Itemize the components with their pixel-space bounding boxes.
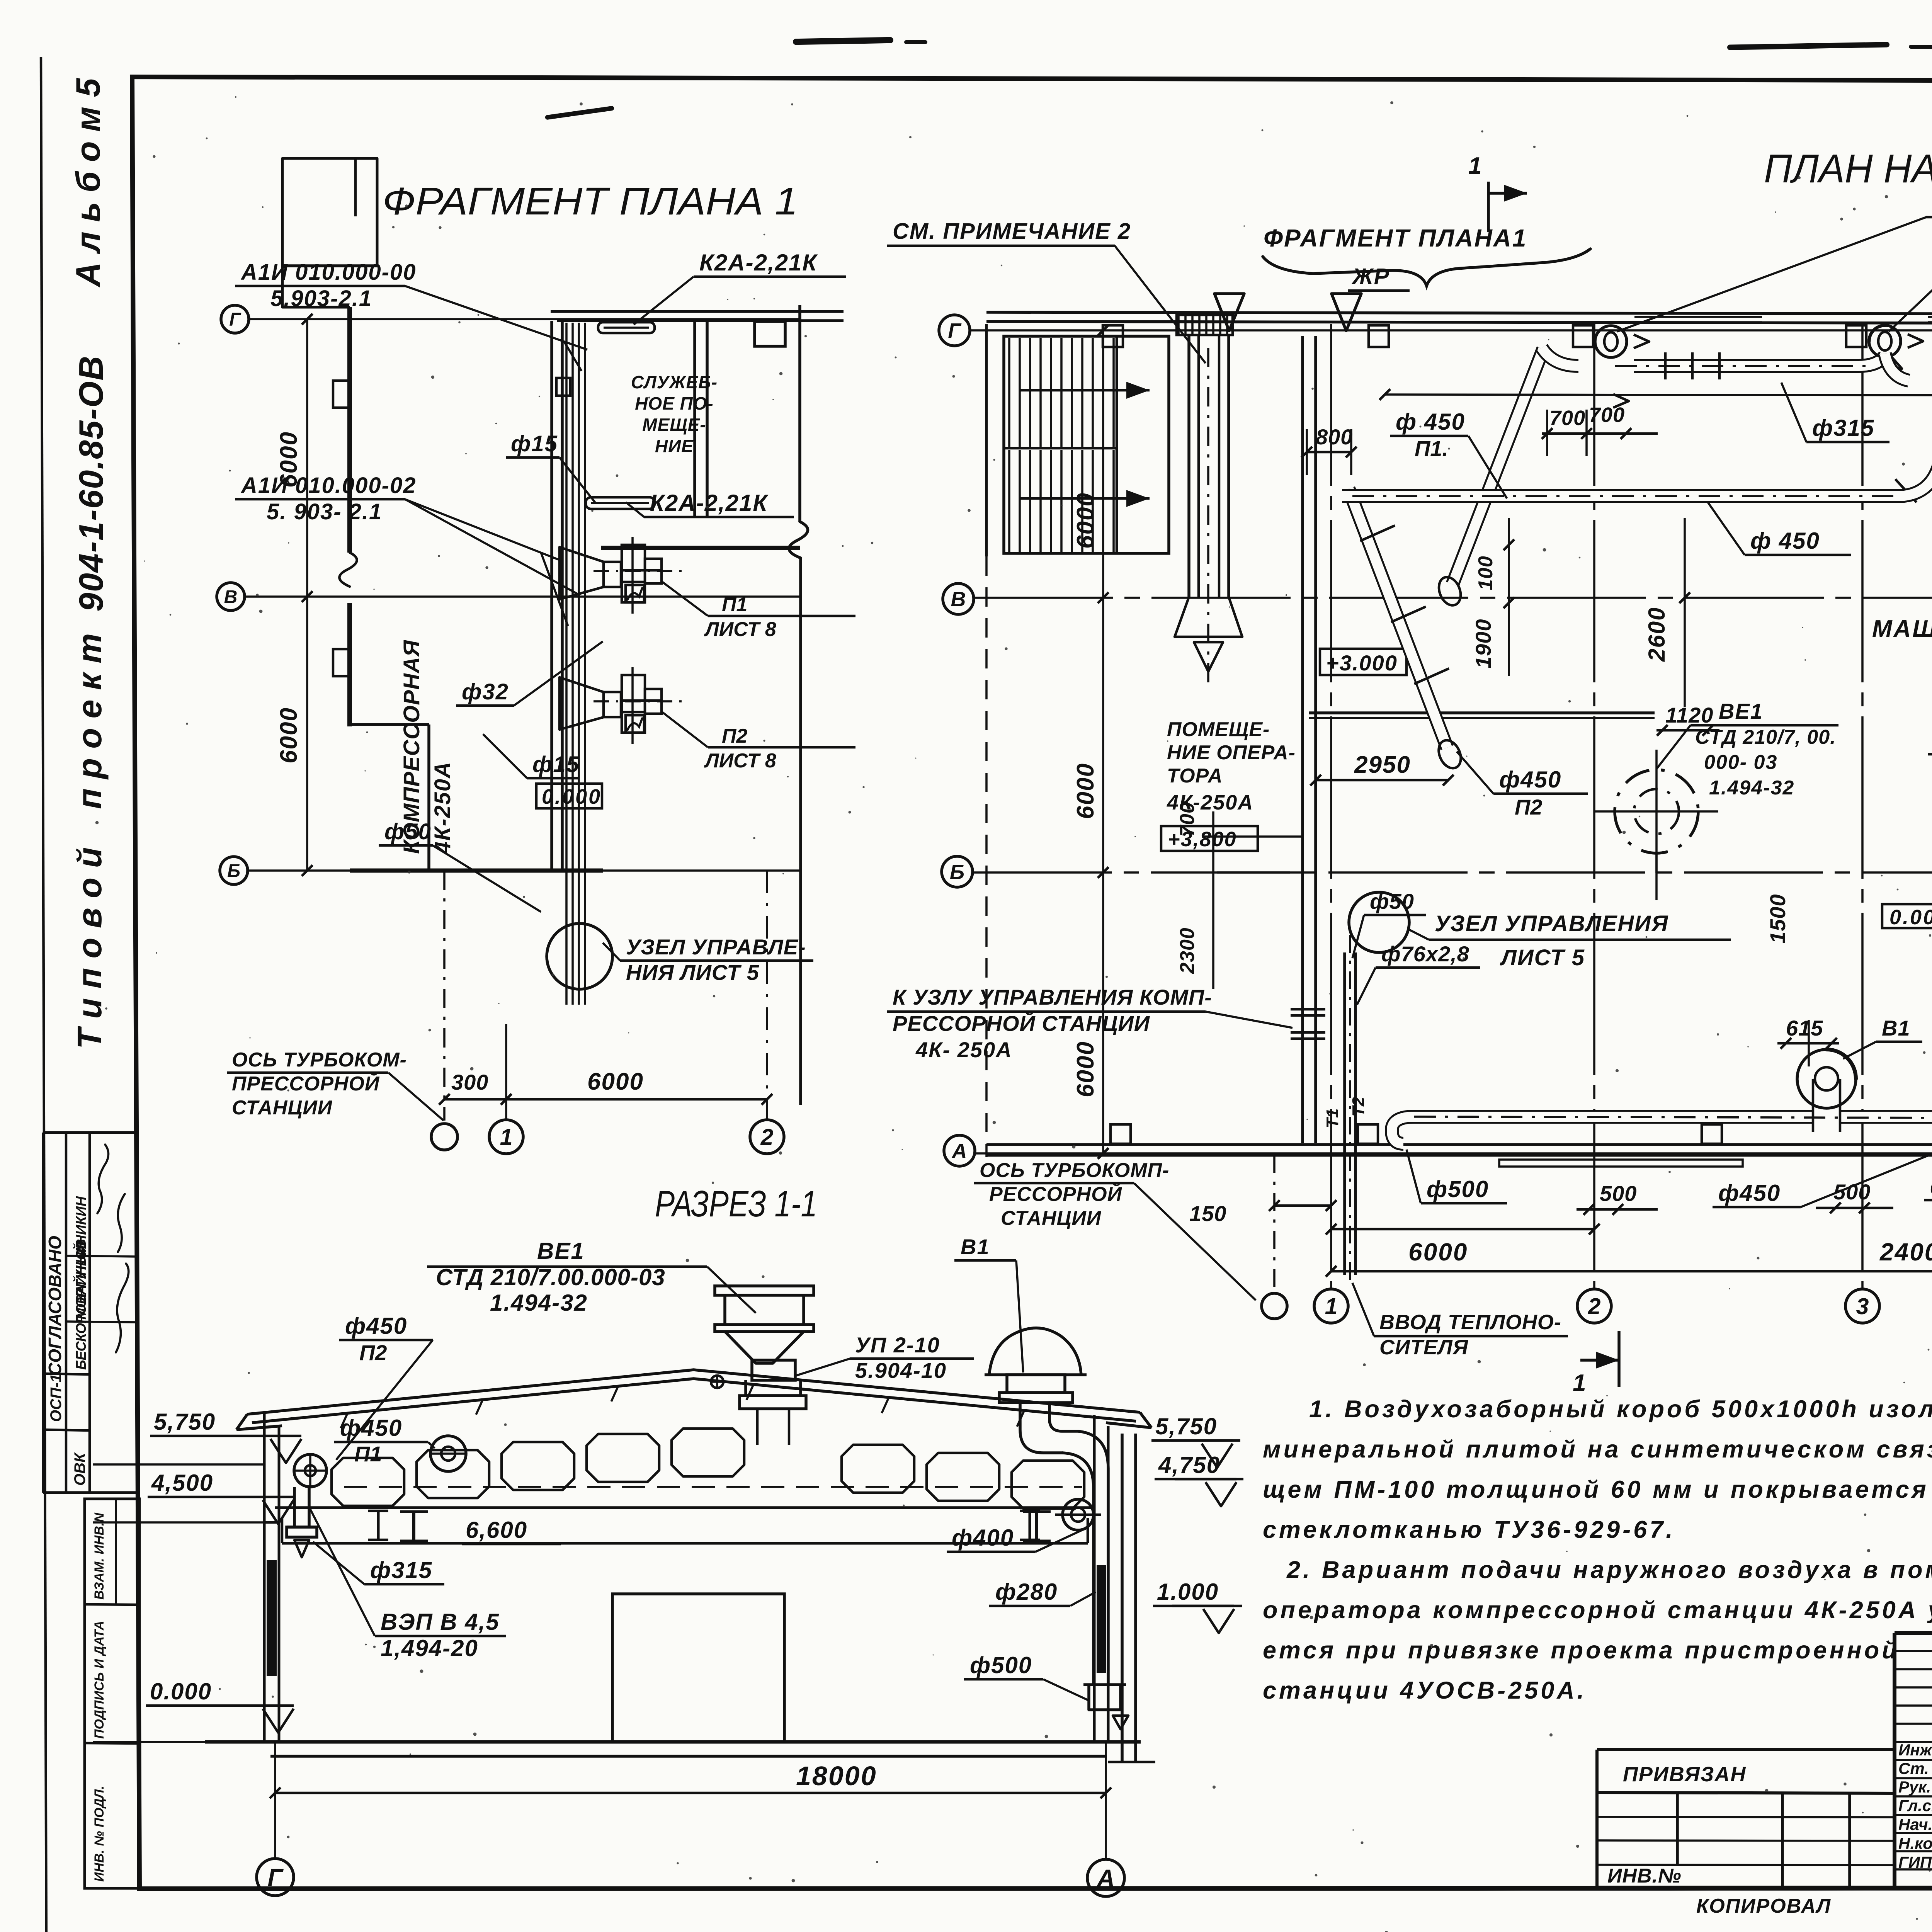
column support at 2683 bbox=[1023, 1510, 1051, 1513]
air intake duct 500x1000 bbox=[1177, 315, 1233, 335]
svg-text:ВЕ1: ВЕ1 bbox=[1719, 699, 1763, 723]
svg-text:Г: Г bbox=[229, 310, 241, 330]
svg-text:ОСЬ ТУРБОКОМ-: ОСЬ ТУРБОКОМ- bbox=[232, 1049, 407, 1071]
dimension 18000 bbox=[275, 1792, 1106, 1794]
svg-text:0.000: 0.000 bbox=[542, 785, 602, 808]
svg-text:500: 500 bbox=[1600, 1181, 1637, 1206]
crossing tick pairs bbox=[1291, 1008, 1325, 1011]
svg-text:2300: 2300 bbox=[1176, 927, 1199, 974]
svg-text:5. 903- 2.1: 5. 903- 2.1 bbox=[267, 499, 382, 524]
section cut mark 1 bottom bbox=[1617, 1331, 1621, 1387]
svg-text:6000: 6000 bbox=[587, 1068, 644, 1095]
svg-text:ВЗАМ. ИНВ.N: ВЗАМ. ИНВ.N bbox=[92, 1512, 107, 1600]
svg-text:4К- 250А: 4К- 250А bbox=[915, 1037, 1012, 1062]
svg-text:Т и п о в о й: Т и п о в о й bbox=[70, 847, 109, 1049]
ф400 elbow flange bbox=[1063, 1499, 1094, 1530]
svg-text:6000: 6000 bbox=[1072, 763, 1099, 819]
svg-text:5.903-2.1: 5.903-2.1 bbox=[270, 286, 372, 311]
svg-text:К2А-2,21К: К2А-2,21К bbox=[699, 250, 818, 276]
svg-text:П2: П2 bbox=[1515, 795, 1542, 819]
top-left annex block bbox=[282, 158, 377, 307]
svg-text:5,750: 5,750 bbox=[154, 1409, 216, 1435]
svg-text:5.904-10: 5.904-10 bbox=[855, 1358, 947, 1383]
svg-text:щем ПМ-100 толщиной 60 мм: щем ПМ-100 толщиной 60 мм и покрывается … bbox=[1263, 1476, 1932, 1503]
svg-text:МЕЩЕ-: МЕЩЕ- bbox=[642, 415, 706, 435]
svg-text:ф15: ф15 bbox=[532, 752, 580, 777]
svg-text:ф32: ф32 bbox=[462, 679, 509, 704]
svg-text:ЖР: ЖР bbox=[1351, 264, 1389, 289]
fragment bottom axis circles bbox=[443, 871, 446, 1121]
axis circle Г section bbox=[257, 1859, 294, 1896]
svg-text:А л ь б о м 5: А л ь б о м 5 bbox=[69, 78, 107, 287]
svg-text:Гл.спец.: Гл.спец. bbox=[1898, 1796, 1932, 1815]
svg-text:ГИП: ГИП bbox=[1898, 1853, 1932, 1871]
0.000 box fragment bbox=[536, 784, 602, 808]
В1 riser bbox=[1797, 1049, 1856, 1108]
svg-text:СИТЕЛЯ: СИТЕЛЯ bbox=[1379, 1336, 1469, 1359]
dim 2950 bbox=[1316, 779, 1448, 782]
svg-text:Г: Г bbox=[267, 1864, 284, 1891]
vertical dim 6000/6000 fragment bbox=[306, 319, 308, 871]
left elbow + ф280 pipe bbox=[1392, 1117, 1814, 1144]
svg-text:НОЕ ПО-: НОЕ ПО- bbox=[635, 393, 714, 413]
break mark on left wall bbox=[339, 553, 357, 587]
ф450 pipe bbox=[1634, 355, 1885, 366]
svg-text:ф 450: ф 450 bbox=[1750, 528, 1820, 554]
svg-text:100: 100 bbox=[1475, 556, 1497, 590]
risers Т1 Т2 bbox=[1343, 952, 1346, 1275]
svg-text:ФРАГМЕНТ ПЛАНА 1: ФРАГМЕНТ ПЛАНА 1 bbox=[383, 180, 798, 223]
stairwell bbox=[1004, 336, 1169, 553]
svg-text:Инжен: Инжен bbox=[1898, 1741, 1932, 1759]
6,600 dimension bbox=[462, 1543, 561, 1546]
svg-text:П1.: П1. bbox=[1415, 436, 1448, 461]
vertical axes 1-5 bbox=[1330, 324, 1332, 1289]
axis Г main bbox=[971, 329, 1932, 332]
break mark right bbox=[789, 522, 808, 558]
left boundary wall segments bbox=[985, 324, 988, 556]
узел управления circle fragment bbox=[547, 923, 612, 989]
svg-text:А: А bbox=[951, 1139, 967, 1163]
svg-text:1.494-32: 1.494-32 bbox=[490, 1290, 588, 1316]
ф500 bottom elbow bbox=[1089, 1685, 1121, 1710]
svg-text:6000: 6000 bbox=[276, 707, 302, 764]
svg-text:ется при привязке проекта: ется при привязке проекта пристроенной bbox=[1263, 1637, 1900, 1664]
svg-text:К2А-2,21К: К2А-2,21К bbox=[650, 490, 769, 516]
svg-text:ОСП-1: ОСП-1 bbox=[48, 1374, 65, 1422]
0.000 box main bbox=[1882, 904, 1932, 928]
svg-text:0.000: 0.000 bbox=[1889, 906, 1932, 929]
svg-text:500: 500 bbox=[1833, 1180, 1871, 1204]
svg-text:5,750: 5,750 bbox=[1155, 1413, 1217, 1439]
svg-text:СЛУЖЕБ-: СЛУЖЕБ- bbox=[631, 372, 718, 392]
svg-text:ф450: ф450 bbox=[1499, 767, 1561, 793]
svg-text:150: 150 bbox=[1189, 1201, 1226, 1226]
bottom wall along А bbox=[986, 1143, 1932, 1146]
svg-text:ЛИСТ 8: ЛИСТ 8 bbox=[704, 618, 776, 641]
svg-text:6000: 6000 bbox=[1072, 1041, 1099, 1097]
roof slab bbox=[247, 1370, 1140, 1414]
axis Г fragment bbox=[250, 318, 800, 320]
svg-text:1500: 1500 bbox=[1765, 894, 1790, 944]
axis circle 3 bbox=[1845, 1289, 1879, 1323]
signature squiggle 3 bbox=[97, 1145, 109, 1213]
central pipe risers bbox=[565, 323, 568, 1005]
svg-text:ИНВ.№: ИНВ.№ bbox=[1607, 1865, 1682, 1887]
floor line 0.000 bbox=[205, 1740, 1141, 1744]
signature squiggle 1 bbox=[116, 1264, 129, 1352]
svg-text:ПЛАН НА ОТМ. 0,000: ПЛАН НА ОТМ. 0,000 bbox=[1764, 146, 1932, 191]
svg-text:ф500: ф500 bbox=[970, 1652, 1032, 1678]
svg-text:П1: П1 bbox=[354, 1442, 382, 1466]
svg-text:А1И 010.000-02: А1И 010.000-02 bbox=[240, 473, 416, 498]
svg-text:СМ. ПРИМЕЧАНИЕ 2: СМ. ПРИМЕЧАНИЕ 2 bbox=[893, 219, 1131, 244]
svg-text:К УЗЛУ УПРАВЛЕНИЯ КОМП-: К УЗЛУ УПРАВЛЕНИЯ КОМП- bbox=[893, 985, 1212, 1009]
svg-text:1: 1 bbox=[1325, 1294, 1338, 1319]
lower left margin table (Взам.инв.N / Подпись и дата / Инв.N подл.) bbox=[85, 1499, 139, 1888]
svg-text:4К-250А: 4К-250А bbox=[430, 761, 455, 854]
svg-text:1900: 1900 bbox=[1471, 619, 1495, 668]
svg-text:НИЯ ЛИСТ 5: НИЯ ЛИСТ 5 bbox=[626, 960, 759, 985]
title block bbox=[1895, 1631, 1932, 1635]
svg-text:2: 2 bbox=[1588, 1294, 1601, 1319]
svg-text:1: 1 bbox=[1573, 1370, 1586, 1396]
П1 fan at top bbox=[1595, 326, 1627, 357]
svg-text:2. Вариант подачи наружного: 2. Вариант подачи наружного воздуха в по… bbox=[1286, 1556, 1932, 1583]
approvals table СОГЛАСОВАНО bbox=[43, 1131, 137, 1134]
dim 700 700 (top) bbox=[1542, 432, 1658, 435]
room divider wall horizontal bbox=[601, 546, 800, 550]
svg-text:1: 1 bbox=[500, 1124, 513, 1150]
octagon hole 5 bbox=[672, 1429, 744, 1476]
svg-text:СТАНЦИИ: СТАНЦИИ bbox=[232, 1097, 333, 1119]
svg-text:ф450: ф450 bbox=[340, 1415, 402, 1441]
П2 diagonal duct bbox=[1349, 489, 1447, 748]
curly brace bbox=[1263, 249, 1590, 286]
ceiling beam band bbox=[275, 1506, 1094, 1509]
column support at 1071 bbox=[400, 1510, 428, 1513]
svg-text:минеральной плитой на синте: минеральной плитой на синтетическом связ… bbox=[1263, 1436, 1932, 1463]
svg-text:1.000: 1.000 bbox=[1157, 1579, 1219, 1605]
sheet outer thin border left edge bbox=[41, 57, 46, 1932]
svg-text:В1: В1 bbox=[1882, 1016, 1910, 1040]
узел управления circle main bbox=[1349, 892, 1409, 952]
svg-text:ф500: ф500 bbox=[1427, 1176, 1489, 1202]
flag triangles ЖР bbox=[1214, 294, 1244, 331]
svg-text:станции 4УОСВ-250А.: станции 4УОСВ-250А. bbox=[1263, 1677, 1587, 1704]
octagon hole 4 bbox=[587, 1434, 659, 1482]
svg-text:МАШИННЫЙ ЗАЛ: МАШИННЫЙ ЗАЛ bbox=[1872, 615, 1932, 642]
svg-text:ОСЬ ТУРБОКОМП-: ОСЬ ТУРБОКОМП- bbox=[980, 1159, 1169, 1182]
svg-text:6,600: 6,600 bbox=[466, 1517, 527, 1543]
svg-text:ф76х2,8: ф76х2,8 bbox=[1381, 942, 1469, 966]
section right wall bbox=[1093, 1415, 1096, 1742]
svg-text:2: 2 bbox=[760, 1124, 774, 1150]
svg-text:904-1-60.85-ОВ: 904-1-60.85-ОВ bbox=[72, 355, 110, 612]
svg-text:700: 700 bbox=[1549, 406, 1585, 430]
svg-text:18000: 18000 bbox=[796, 1761, 877, 1791]
left dim chain 6000x3 bbox=[1102, 330, 1104, 1153]
svg-text:Б: Б bbox=[227, 861, 240, 881]
svg-text:РЕССОРНОЙ СТАНЦИИ: РЕССОРНОЙ СТАНЦИИ bbox=[893, 1011, 1150, 1036]
pilasters on А wall bbox=[1111, 1124, 1131, 1144]
svg-text:700: 700 bbox=[1589, 403, 1625, 427]
svg-text:ф400: ф400 bbox=[952, 1525, 1014, 1551]
rounded open end П1 diag bbox=[1435, 574, 1465, 609]
svg-text:А: А bbox=[1096, 1864, 1115, 1892]
svg-text:2600: 2600 bbox=[1644, 607, 1670, 662]
П2 unit: fan + funnel bbox=[560, 677, 604, 730]
ось турбокомпрессорной circle small bbox=[1273, 1155, 1276, 1293]
octagon hole 7 bbox=[842, 1445, 914, 1493]
room partition wall vertical bbox=[693, 321, 696, 518]
svg-text:ПРЕССОРНОЙ: ПРЕССОРНОЙ bbox=[232, 1072, 380, 1095]
svg-text:А1И 010.000-00: А1И 010.000-00 bbox=[240, 260, 416, 285]
octagon hole 8 bbox=[927, 1453, 999, 1501]
svg-text:УЗЕЛ УПРАВЛЕ-: УЗЕЛ УПРАВЛЕ- bbox=[626, 935, 806, 959]
+3.000 box bbox=[1320, 649, 1406, 675]
fragment top wall double bbox=[551, 310, 844, 313]
svg-text:Т2: Т2 bbox=[1349, 1097, 1368, 1117]
svg-text:П2: П2 bbox=[722, 725, 747, 747]
svg-text:1120: 1120 bbox=[1665, 703, 1713, 727]
К2А radiators bbox=[598, 322, 655, 333]
signature squiggle 2 bbox=[118, 1194, 125, 1252]
svg-text:П1: П1 bbox=[722, 594, 747, 616]
octagon hole 1 bbox=[332, 1458, 404, 1506]
octagon hole 3 bbox=[502, 1442, 574, 1490]
П1 unit: fan + funnel bbox=[560, 547, 604, 599]
svg-text:ВЭП В 4,5: ВЭП В 4,5 bbox=[381, 1609, 500, 1635]
svg-text:П2: П2 bbox=[359, 1340, 387, 1365]
dim 24000 bottom bbox=[1331, 1270, 1932, 1273]
svg-text:ПОДПИСЬ И ДАТА: ПОДПИСЬ И ДАТА bbox=[92, 1621, 107, 1739]
svg-text:СТД 210/7.00.000-03: СТД 210/7.00.000-03 bbox=[436, 1264, 665, 1290]
svg-text:ПОМЕЩЕ-: ПОМЕЩЕ- bbox=[1167, 718, 1270, 741]
svg-text:ф450: ф450 bbox=[345, 1313, 407, 1339]
svg-text:700: 700 bbox=[1176, 802, 1199, 837]
svg-text:1: 1 bbox=[1468, 153, 1481, 179]
svg-text:УП 2-10: УП 2-10 bbox=[855, 1333, 940, 1357]
ВЕ1 deflector circle left bbox=[1615, 770, 1698, 853]
svg-text:Н.контр: Н.контр bbox=[1898, 1834, 1932, 1852]
svg-text:КОМПРЕССОРНАЯ: КОМПРЕССОРНАЯ bbox=[399, 639, 424, 854]
svg-text:В1: В1 bbox=[961, 1235, 990, 1259]
svg-text:ф500: ф500 bbox=[1930, 1173, 1932, 1199]
svg-text:ф450: ф450 bbox=[1718, 1180, 1781, 1206]
octagon hole 9 bbox=[1012, 1461, 1084, 1509]
П1 fan circle bbox=[430, 1436, 466, 1471]
ВЕ1 deflector unit on roof bbox=[715, 1286, 814, 1295]
lower walls fragment bbox=[350, 723, 429, 726]
svg-text:ф 450: ф 450 bbox=[1396, 409, 1465, 435]
svg-text:300: 300 bbox=[451, 1070, 488, 1094]
svg-text:ф50: ф50 bbox=[1370, 889, 1414, 913]
svg-text:6000: 6000 bbox=[1072, 492, 1099, 549]
svg-text:000- 03: 000- 03 bbox=[1704, 751, 1777, 774]
axis circle 2 bbox=[1577, 1289, 1611, 1323]
svg-text:ф15: ф15 bbox=[511, 431, 558, 456]
wall at y1851 bbox=[1309, 711, 1655, 714]
ф450 pipe with S-bend bbox=[1342, 363, 1932, 496]
svg-text:4,500: 4,500 bbox=[151, 1470, 213, 1496]
привязан table bbox=[1597, 1748, 1895, 1751]
axis Б fragment bbox=[248, 869, 800, 872]
dim 800 bbox=[1307, 451, 1351, 454]
operator room wall vertical bbox=[1301, 336, 1304, 1143]
П1 diagonal duct bbox=[1452, 349, 1543, 584]
pipe flange ticks bbox=[1664, 352, 1667, 379]
svg-text:4,750: 4,750 bbox=[1158, 1452, 1220, 1478]
svg-text:Нач.ОПВ: Нач.ОПВ bbox=[1898, 1815, 1932, 1833]
svg-text:СТАНЦИИ: СТАНЦИИ bbox=[1001, 1207, 1102, 1230]
svg-text:НИЕ: НИЕ bbox=[655, 436, 694, 456]
top long guide line bbox=[1385, 395, 1932, 396]
svg-text:Б: Б bbox=[950, 861, 964, 884]
svg-text:6000: 6000 bbox=[1408, 1238, 1468, 1266]
scan smudge marks top bbox=[793, 37, 893, 45]
svg-text:3: 3 bbox=[1856, 1294, 1869, 1319]
svg-text:ЛИСТ 5: ЛИСТ 5 bbox=[1500, 945, 1585, 970]
В1 roof vent (mushroom) bbox=[989, 1328, 1081, 1375]
svg-text:1. Воздухозаборный короб 500: 1. Воздухозаборный короб 500х1000h изоли… bbox=[1309, 1396, 1932, 1423]
svg-text:800: 800 bbox=[1316, 425, 1353, 449]
svg-text:п р о е к т: п р о е к т bbox=[70, 633, 109, 809]
axis В main bbox=[974, 597, 1932, 599]
svg-text:ВЕ1: ВЕ1 bbox=[537, 1238, 585, 1264]
section left wall bbox=[263, 1414, 266, 1742]
axis А main bbox=[976, 1152, 1932, 1155]
svg-text:Ст. инж: Ст. инж bbox=[1898, 1759, 1932, 1777]
svg-text:0.000: 0.000 bbox=[150, 1679, 212, 1704]
svg-text:2950: 2950 bbox=[1354, 752, 1411, 778]
svg-text:АНИКИН: АНИКИН bbox=[73, 1196, 89, 1255]
svg-text:ТОРА: ТОРА bbox=[1167, 765, 1223, 787]
svg-text:НИЕ ОПЕРА-: НИЕ ОПЕРА- bbox=[1167, 742, 1296, 764]
axis В fragment bbox=[245, 595, 800, 598]
fans at top 4878 5420 6092 bbox=[1869, 325, 1901, 357]
octagon hole 2 bbox=[417, 1450, 489, 1498]
svg-text:+3.000: +3.000 bbox=[1326, 651, 1398, 675]
fragment outer left wall bbox=[347, 307, 352, 553]
П2 fan circle bbox=[294, 1454, 327, 1487]
main top wall along Г bbox=[986, 312, 1932, 315]
svg-text:РАЗРЕЗ 1-1: РАЗРЕЗ 1-1 bbox=[655, 1183, 817, 1225]
svg-text:оператора компрессорной стан: оператора компрессорной станции 4К-250А … bbox=[1263, 1597, 1932, 1624]
svg-text:стеклотканью ТУ36-929-67.: стеклотканью ТУ36-929-67. bbox=[1263, 1516, 1675, 1543]
svg-text:ф315: ф315 bbox=[1812, 415, 1874, 441]
fragment right boundary wall with break bbox=[798, 305, 801, 522]
window sill rects below А wall bbox=[1499, 1160, 1743, 1167]
inner shaft wall pair bbox=[550, 321, 553, 871]
window inner lines on top wall bbox=[1634, 316, 1762, 318]
svg-text:В: В bbox=[951, 588, 966, 611]
svg-text:Т1: Т1 bbox=[1323, 1109, 1342, 1128]
dim 150 ticks bottom left bbox=[1274, 1204, 1331, 1207]
svg-text:615: 615 bbox=[1786, 1016, 1823, 1040]
door opening bbox=[612, 1594, 784, 1742]
svg-text:РЕССОРНОЙ: РЕССОРНОЙ bbox=[989, 1182, 1122, 1206]
svg-text:ф280: ф280 bbox=[995, 1579, 1058, 1605]
dim 1120 left bbox=[1656, 729, 1719, 732]
wall pilasters top bbox=[1103, 325, 1123, 347]
axis circle 1 bbox=[1314, 1289, 1348, 1323]
П2 drop duct with diffuser bbox=[293, 1487, 296, 1527]
svg-text:ф315: ф315 bbox=[370, 1557, 432, 1583]
svg-text:СОГЛАСОВАНО: СОГЛАСОВАНО bbox=[45, 1236, 65, 1376]
svg-text:Рук. гр.: Рук. гр. bbox=[1898, 1778, 1932, 1796]
svg-text:КОПИРОВАЛ: КОПИРОВАЛ bbox=[1696, 1895, 1831, 1917]
axis Б main bbox=[973, 871, 1932, 874]
svg-text:ВВОД ТЕПЛОНО-: ВВОД ТЕПЛОНО- bbox=[1379, 1311, 1561, 1334]
svg-text:ИНВ. № ПОДЛ.: ИНВ. № ПОДЛ. bbox=[92, 1786, 107, 1882]
svg-text:ЛИСТ 8: ЛИСТ 8 bbox=[704, 750, 776, 772]
svg-text:ОВК: ОВК bbox=[71, 1452, 88, 1486]
fragment bottom dims bbox=[444, 1098, 767, 1101]
axis circle А section bbox=[1087, 1859, 1124, 1896]
svg-text:В: В bbox=[224, 587, 238, 607]
svg-text:1,494-20: 1,494-20 bbox=[381, 1635, 478, 1661]
svg-text:24000: 24000 bbox=[1879, 1238, 1932, 1266]
svg-text:УЗЕЛ УПРАВЛЕНИЯ: УЗЕЛ УПРАВЛЕНИЯ bbox=[1435, 911, 1668, 936]
svg-text:1.494-32: 1.494-32 bbox=[1709, 777, 1794, 799]
svg-text:Г: Г bbox=[948, 319, 962, 342]
dim 6000 bottom bbox=[1331, 1228, 1594, 1231]
